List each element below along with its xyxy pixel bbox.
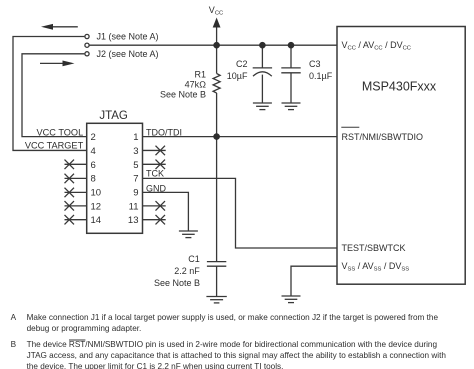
connector J2 bbox=[85, 52, 89, 56]
svg-text:47kΩ: 47kΩ bbox=[185, 79, 207, 89]
svg-text:RST/NMI/SBWTDIO: RST/NMI/SBWTDIO bbox=[342, 132, 424, 142]
ground symbols bbox=[179, 103, 301, 303]
X pin 8 bbox=[65, 174, 75, 184]
svg-text:A: A bbox=[11, 313, 17, 322]
labels C1 bbox=[154, 254, 200, 288]
svg-text:13: 13 bbox=[128, 215, 139, 226]
no-connect X marks bbox=[65, 146, 166, 225]
wire TDO/TDI to RST bbox=[143, 136, 338, 138]
X pin 3 bbox=[156, 146, 166, 156]
svg-text:6: 6 bbox=[91, 160, 96, 171]
ground under C1 bbox=[206, 297, 226, 303]
svg-text:TDO/TDI: TDO/TDI bbox=[146, 127, 182, 137]
svg-text:VCC: VCC bbox=[209, 5, 223, 17]
wire C1 branch bbox=[216, 137, 218, 262]
svg-text:R1: R1 bbox=[194, 70, 206, 80]
MSP430 pin label RST/NMI/SBWTDIO bbox=[341, 127, 423, 142]
svg-text:C1: C1 bbox=[188, 254, 200, 264]
capacitor C1 bbox=[207, 261, 226, 263]
resistor R1 bbox=[213, 74, 220, 93]
svg-text:The device RST/NMI/SBWTDIO pin: The device RST/NMI/SBWTDIO pin is used i… bbox=[27, 340, 438, 349]
wire C2 to ground bbox=[261, 75, 263, 103]
svg-text:VCC / AVCC / DVCC: VCC / AVCC / DVCC bbox=[342, 40, 412, 52]
svg-text:2: 2 bbox=[91, 132, 96, 143]
junction dot C3 bbox=[288, 42, 295, 49]
svg-text:10µF: 10µF bbox=[227, 71, 248, 81]
svg-text:4: 4 bbox=[91, 146, 96, 157]
label VCC top bbox=[209, 5, 223, 17]
connector J1 bbox=[85, 34, 89, 38]
arrow right (to J2) bbox=[40, 61, 75, 67]
svg-text:VCC TOOL: VCC TOOL bbox=[37, 128, 84, 138]
note B bbox=[11, 340, 447, 369]
svg-text:VCC TARGET: VCC TARGET bbox=[25, 140, 84, 150]
stub pin 5 bbox=[143, 163, 166, 165]
wire R1 top bbox=[216, 45, 218, 73]
svg-text:0.1µF: 0.1µF bbox=[309, 71, 333, 81]
X pin 5 bbox=[156, 160, 166, 170]
wire VSS to ground bbox=[291, 266, 337, 296]
junction dot C2 bbox=[259, 42, 266, 49]
stub pin 6 bbox=[65, 163, 87, 165]
JTAG pin numbers right bbox=[128, 132, 139, 226]
svg-text:TCK: TCK bbox=[146, 168, 164, 178]
VCC supply arrow bbox=[213, 18, 221, 28]
wire GND pin9 bbox=[143, 192, 189, 231]
junction dots bbox=[213, 42, 294, 140]
svg-text:JTAG access, and any capacitan: JTAG access, and any capacitance that is… bbox=[27, 351, 447, 360]
X pin 12 bbox=[65, 201, 75, 211]
svg-text:7: 7 bbox=[133, 174, 138, 185]
X pin 13 bbox=[156, 215, 166, 225]
ground under C2 bbox=[253, 103, 272, 110]
svg-text:1: 1 bbox=[133, 132, 138, 143]
stub pin 8 bbox=[65, 177, 87, 179]
svg-text:5: 5 bbox=[133, 160, 138, 171]
wire VCC rail bbox=[89, 44, 337, 46]
connector mid (VCC) bbox=[85, 43, 89, 47]
stub pin 11 bbox=[143, 205, 166, 207]
wire VCC arrow stem bbox=[216, 27, 218, 45]
wire C3 branch bbox=[290, 45, 292, 68]
stub pin 13 bbox=[143, 219, 166, 221]
svg-text:2.2 nF: 2.2 nF bbox=[174, 266, 200, 276]
svg-text:debug or programming adapter.: debug or programming adapter. bbox=[27, 324, 142, 333]
wire C2 branch bbox=[261, 45, 263, 68]
JTAG pin numbers left bbox=[91, 132, 102, 226]
X pin 14 bbox=[65, 215, 75, 225]
arrow left (to J1) bbox=[41, 24, 78, 30]
ground under GND pin 9 bbox=[179, 231, 198, 238]
label C3 bbox=[309, 59, 333, 81]
svg-text:See Note B: See Note B bbox=[154, 278, 200, 288]
wire TCK to TEST bbox=[143, 178, 338, 248]
svg-text:3: 3 bbox=[133, 146, 138, 157]
svg-text:14: 14 bbox=[91, 215, 102, 226]
svg-text:C2: C2 bbox=[236, 59, 248, 69]
stub pin 10 bbox=[65, 191, 87, 193]
capacitor C2 bbox=[253, 67, 272, 69]
svg-text:MSP430Fxxx: MSP430Fxxx bbox=[362, 80, 437, 94]
svg-text:TEST/SBWTCK: TEST/SBWTCK bbox=[342, 243, 406, 253]
svg-text:C3: C3 bbox=[309, 59, 321, 69]
svg-text:11: 11 bbox=[129, 201, 139, 212]
ground under VSS bbox=[282, 296, 301, 303]
svg-text:the device. The upper limit fo: the device. The upper limit for C1 is 2.… bbox=[27, 362, 284, 369]
svg-text:8: 8 bbox=[91, 174, 96, 185]
svg-text:JTAG: JTAG bbox=[99, 110, 128, 122]
stub pin 14 bbox=[65, 219, 87, 221]
label C2 bbox=[227, 59, 248, 81]
stub pin 12 bbox=[65, 205, 87, 207]
ground under C3 bbox=[282, 103, 301, 110]
X pin 11 bbox=[156, 201, 166, 211]
svg-text:J1 (see Note A): J1 (see Note A) bbox=[97, 32, 159, 42]
svg-text:B: B bbox=[11, 340, 17, 349]
capacitor C3 bbox=[281, 67, 300, 69]
svg-text:10: 10 bbox=[91, 188, 102, 199]
MSP430 box bbox=[337, 27, 465, 285]
note A bbox=[11, 313, 439, 333]
svg-text:GND: GND bbox=[146, 183, 167, 193]
JTAG box bbox=[87, 123, 143, 233]
svg-text:Make connection J1 if a local: Make connection J1 if a local target pow… bbox=[27, 313, 439, 322]
wire J1 to VCC TARGET bbox=[13, 37, 87, 151]
junction dot VCC/R1 bbox=[213, 42, 220, 49]
svg-text:See Note B: See Note B bbox=[160, 89, 206, 99]
svg-text:VSS / AVSS / DVSS: VSS / AVSS / DVSS bbox=[342, 261, 410, 273]
wire C3 to ground bbox=[290, 73, 292, 103]
svg-text:9: 9 bbox=[133, 188, 138, 199]
X pin 6 bbox=[65, 160, 75, 170]
wire R1 bottom bbox=[216, 93, 218, 137]
junction dot TDO/C1 bbox=[213, 133, 220, 140]
svg-text:12: 12 bbox=[91, 201, 102, 212]
stub pin 3 bbox=[143, 149, 166, 151]
wire J2 to VCC TOOL bbox=[22, 54, 87, 137]
X pin 10 bbox=[65, 188, 75, 198]
svg-text:J2 (see Note A): J2 (see Note A) bbox=[97, 49, 159, 59]
wire C1 to ground bbox=[216, 266, 218, 296]
labels R1 bbox=[160, 70, 206, 100]
